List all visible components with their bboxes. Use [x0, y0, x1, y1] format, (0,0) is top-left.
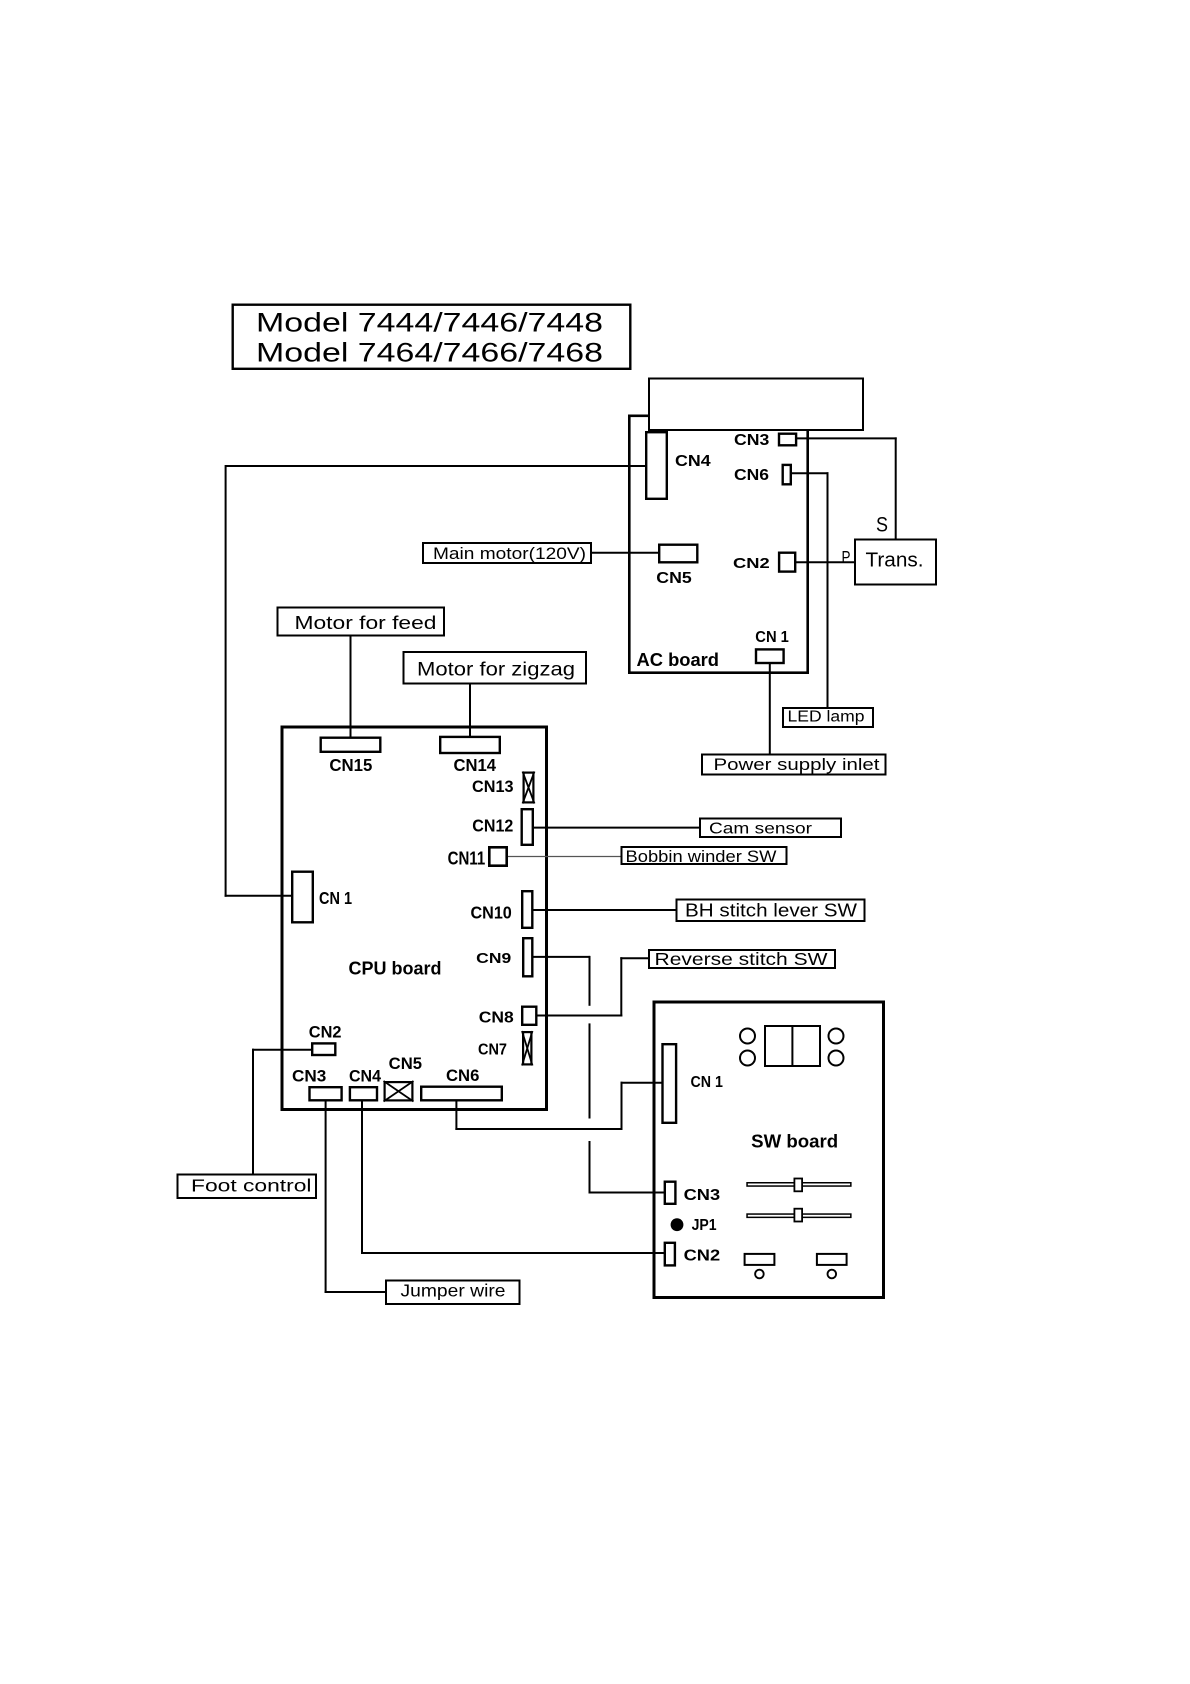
svg-text:CN4: CN4 — [675, 453, 711, 470]
svg-text:Reverse stitch SW: Reverse stitch SW — [655, 949, 829, 969]
svg-text:CN 1: CN 1 — [319, 888, 352, 908]
svg-text:CN12: CN12 — [472, 816, 513, 836]
svg-text:LED lamp: LED lamp — [788, 709, 865, 726]
svg-text:CN3: CN3 — [684, 1187, 721, 1204]
svg-text:Motor for feed: Motor for feed — [295, 613, 437, 633]
svg-text:BH stitch lever SW: BH stitch lever SW — [685, 900, 858, 921]
svg-text:CN15: CN15 — [329, 755, 372, 775]
svg-text:Model 7444/7446/7448: Model 7444/7446/7448 — [256, 308, 603, 338]
svg-text:CN11: CN11 — [448, 848, 486, 868]
svg-text:CN14: CN14 — [454, 755, 497, 775]
svg-text:AC board: AC board — [637, 649, 720, 670]
svg-text:S: S — [876, 513, 888, 537]
svg-text:CN7: CN7 — [478, 1042, 507, 1059]
svg-text:CN2: CN2 — [733, 555, 770, 572]
svg-text:P: P — [842, 547, 851, 567]
svg-text:Motor for zigzag: Motor for zigzag — [417, 660, 575, 681]
svg-text:Power supply inlet: Power supply inlet — [714, 756, 881, 774]
svg-text:JP1: JP1 — [692, 1217, 717, 1234]
svg-text:CN6: CN6 — [734, 467, 769, 484]
svg-text:SW board: SW board — [751, 1132, 838, 1152]
svg-text:CN8: CN8 — [479, 1010, 514, 1027]
svg-text:CN10: CN10 — [471, 903, 513, 923]
svg-text:CN3: CN3 — [734, 432, 769, 449]
svg-text:CN9: CN9 — [476, 951, 511, 967]
svg-text:CPU board: CPU board — [349, 958, 442, 979]
svg-text:CN 1: CN 1 — [691, 1074, 724, 1091]
svg-text:Jumper wire: Jumper wire — [401, 1281, 506, 1301]
svg-text:CN2: CN2 — [684, 1248, 721, 1265]
svg-text:Foot control: Foot control — [191, 1176, 312, 1196]
svg-text:Model 7464/7466/7468: Model 7464/7466/7468 — [256, 338, 603, 368]
svg-text:CN4: CN4 — [349, 1068, 382, 1086]
svg-text:CN2: CN2 — [309, 1024, 342, 1042]
svg-text:CN 1: CN 1 — [755, 629, 789, 646]
svg-text:Bobbin winder SW: Bobbin winder SW — [626, 847, 777, 866]
svg-text:CN5: CN5 — [389, 1055, 422, 1073]
svg-text:CN6: CN6 — [446, 1067, 479, 1085]
svg-text:CN13: CN13 — [472, 777, 514, 796]
svg-text:Cam sensor: Cam sensor — [709, 821, 813, 838]
svg-text:Main motor(120V): Main motor(120V) — [433, 544, 586, 563]
svg-text:CN5: CN5 — [656, 570, 692, 587]
svg-text:Trans.: Trans. — [866, 550, 924, 572]
svg-text:CN3: CN3 — [292, 1068, 326, 1086]
